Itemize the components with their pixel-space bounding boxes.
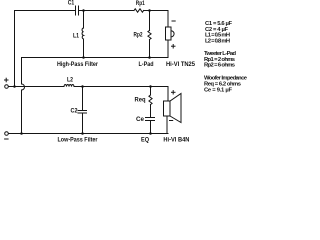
wire Rp2 bottom lead (149, 40, 151, 58)
svg-text:Req: Req (135, 98, 146, 104)
capacitor Ce (146, 118, 155, 121)
wire left input vertical (14, 11, 16, 87)
wire L1 bottom lead (83, 39, 85, 58)
wire high-pass return rail (22, 57, 169, 59)
capacitor C2 (78, 111, 87, 114)
tweeter dome (171, 31, 174, 37)
node junction Ce bottom (149, 132, 152, 135)
node junction Req top (149, 85, 152, 88)
plus sign woofer (172, 91, 176, 94)
wire C2 top lead (82, 87, 84, 111)
svg-text:Woofer Impedance: Woofer Impedance (204, 75, 248, 81)
wire woofer feed rail right (74, 86, 168, 88)
wire tweeter bottom drop (167, 40, 169, 58)
svg-text:Ce = 9.1 µF: Ce = 9.1 µF (204, 88, 232, 94)
svg-text:Ce: Ce (136, 117, 145, 123)
svg-text:Rp2 = 6 ohms: Rp2 = 6 ohms (204, 62, 235, 68)
inductor L2 (64, 84, 74, 86)
wire Rp2 top lead (149, 11, 151, 31)
svg-text:L2: L2 (67, 78, 74, 84)
wire hop over positive feed (22, 84, 25, 90)
wire return vertical upper (21, 58, 23, 85)
minus sign input (5, 138, 9, 140)
capacitor C1 (76, 6, 79, 15)
wire L1 top lead (83, 11, 85, 29)
wire top rail left segment (15, 10, 76, 12)
wire woofer bottom drop (166, 116, 168, 134)
svg-text:Hi-VI TN25: Hi-VI TN25 (166, 62, 196, 68)
plus sign input (5, 78, 9, 82)
minus sign woofer (170, 120, 173, 122)
wire return vertical lower (21, 90, 23, 134)
svg-text:Req = 6.2 ohms: Req = 6.2 ohms (204, 81, 241, 87)
resistor Rp2 (148, 31, 151, 40)
woofer U2 Hi-VI B4N body (164, 101, 171, 116)
resistor Req (149, 95, 152, 105)
minus sign tweeter (172, 20, 175, 22)
svg-text:Rp2: Rp2 (134, 33, 144, 39)
svg-text:L2 = 0.8 mH: L2 = 0.8 mH (205, 39, 230, 45)
wire top rail middle segment (79, 10, 134, 12)
svg-text:C2: C2 (71, 109, 79, 115)
svg-text:High-Pass Filter: High-Pass Filter (57, 62, 99, 68)
tweeter U1 Hi-VI TN25 body (166, 27, 172, 40)
svg-text:Low-Pass Filter: Low-Pass Filter (58, 138, 99, 144)
node junction rail2 Rp2 (148, 56, 151, 59)
inductor L1 (82, 28, 83, 39)
svg-text:EQ: EQ (141, 138, 149, 144)
wire Req to Ce lead (150, 105, 152, 118)
node junction rail2 L1 (82, 56, 85, 59)
wire tweeter top drop (167, 11, 169, 28)
wire woofer feed rail left (8, 86, 64, 88)
node junction C2 top (81, 85, 84, 88)
wire bottom rail (8, 133, 168, 135)
wire C2 bottom lead (82, 113, 84, 134)
node junction top L1 (82, 9, 85, 12)
plus sign tweeter (172, 45, 176, 49)
node junction C2 bottom (81, 132, 84, 135)
wire woofer top drop (167, 87, 169, 102)
terminal plus input (5, 85, 9, 89)
woofer cone (170, 94, 181, 123)
svg-text:C1: C1 (68, 1, 75, 7)
svg-text:L-Pad: L-Pad (139, 62, 154, 68)
wire top rail right segment (144, 10, 169, 12)
svg-text:Rp1: Rp1 (136, 1, 146, 7)
svg-text:L1: L1 (73, 34, 80, 40)
node junction plus feed (13, 85, 16, 88)
wire Ce bottom lead (150, 121, 152, 134)
resistor Rp1 (134, 9, 144, 12)
node junction top Rp2 (148, 9, 151, 12)
svg-text:Hi-VI B4N: Hi-VI B4N (163, 138, 189, 144)
wire Req top lead (150, 87, 152, 96)
terminal minus input (5, 132, 9, 136)
node junction bottom return (20, 132, 23, 135)
